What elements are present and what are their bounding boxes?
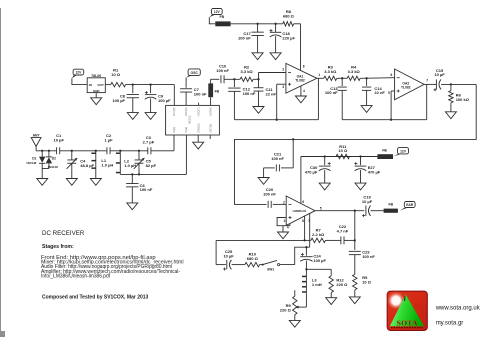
wire R8 to OA1 pin 8 bbox=[294, 24, 301, 70]
svg-text:78L06: 78L06 bbox=[91, 74, 101, 78]
wire diode return bbox=[42, 169, 49, 179]
capacitor C22 bbox=[326, 224, 355, 244]
svg-text:IN: IN bbox=[89, 83, 92, 87]
svg-text:3: 3 bbox=[284, 219, 286, 223]
wire LM386 pin3/pin4 ground loop bbox=[277, 218, 290, 233]
ground (C14) bbox=[361, 106, 372, 113]
svg-text:100 kΩ: 100 kΩ bbox=[456, 97, 470, 102]
ferrite bead FB (amp supply) bbox=[377, 149, 393, 159]
ground (C4) bbox=[66, 179, 77, 186]
capacitor C14 bbox=[362, 78, 385, 105]
ground (R9) bbox=[289, 320, 300, 327]
wire OA1 output bbox=[317, 77, 324, 79]
capacitor E27 bbox=[354, 157, 380, 184]
svg-text:TL082: TL082 bbox=[295, 78, 305, 82]
stage source links bbox=[41, 255, 184, 280]
svg-text:10 pF: 10 pF bbox=[53, 137, 64, 142]
svg-text:1N4148: 1N4148 bbox=[26, 161, 37, 165]
capacitor C18 bbox=[270, 24, 296, 53]
audio amplifier U3 LM386-N1 bbox=[283, 196, 322, 230]
wire gain network bbox=[216, 239, 305, 241]
resistor R7 bbox=[305, 228, 326, 243]
switch SW1 bbox=[260, 260, 280, 271]
capacitor C30 bbox=[305, 157, 331, 184]
svg-text:100 nF: 100 nF bbox=[194, 91, 207, 96]
svg-text:22 nF: 22 nF bbox=[266, 92, 277, 97]
svg-text:OUT(4): OUT(4) bbox=[208, 108, 212, 117]
svg-text:470 µF: 470 µF bbox=[368, 170, 381, 175]
SOTA logo bbox=[387, 291, 428, 331]
wire feedback rail stage 2 bbox=[342, 84, 427, 120]
wire OA2 output bbox=[424, 83, 436, 85]
capacitor C20 bbox=[263, 187, 276, 208]
wire R3 to R4 bbox=[337, 77, 347, 79]
wire OA2 pin 5 feedback bbox=[391, 91, 395, 120]
capacitor C19 bbox=[362, 195, 373, 217]
svg-text:82 pF: 82 pF bbox=[146, 163, 157, 168]
capacitor C13 bbox=[325, 78, 347, 119]
svg-text:4.7 nF: 4.7 nF bbox=[337, 229, 349, 234]
resistor R6 bbox=[449, 84, 470, 111]
svg-text:680 Ω: 680 Ω bbox=[247, 256, 259, 261]
svg-text:10 Ω: 10 Ω bbox=[111, 72, 121, 77]
title DC RECEIVER bbox=[42, 230, 85, 237]
svg-text:2: 2 bbox=[283, 200, 285, 204]
svg-text:220 Ω: 220 Ω bbox=[336, 282, 348, 287]
svg-text:SOTA: SOTA bbox=[397, 318, 418, 327]
capacitor C12 bbox=[228, 79, 256, 119]
svg-text:10 µF: 10 µF bbox=[434, 72, 445, 77]
svg-text:LM386-N1: LM386-N1 bbox=[293, 209, 307, 213]
wire feedback rail stage 1 bbox=[234, 78, 318, 121]
svg-text:FB: FB bbox=[215, 89, 220, 93]
resistor R3 bbox=[324, 64, 337, 80]
wire FB to C10 bbox=[211, 78, 220, 80]
svg-text:48.8 pF: 48.8 pF bbox=[80, 163, 94, 168]
svg-text:100 nF: 100 nF bbox=[362, 254, 375, 259]
ground (E27) bbox=[355, 183, 366, 190]
ground (R5) bbox=[349, 297, 360, 304]
svg-text:Stages from:: Stages from: bbox=[42, 244, 74, 250]
svg-text:OSC(7): OSC(7) bbox=[196, 107, 200, 116]
svg-text:12V: 12V bbox=[400, 149, 407, 153]
svg-text:1 mH: 1 mH bbox=[312, 282, 322, 287]
wire LM386 output bbox=[315, 210, 364, 212]
ground (C21) bbox=[258, 178, 269, 185]
ground (C9) bbox=[145, 113, 156, 120]
inductor L3 bbox=[298, 268, 322, 307]
wire C19 to FB bbox=[371, 210, 384, 212]
wire LM386 pin 8 bbox=[303, 216, 305, 242]
svg-text:VCC(8): VCC(8) bbox=[172, 108, 176, 117]
ferrite bead FB (output) bbox=[384, 203, 398, 213]
svg-text:100 nF: 100 nF bbox=[271, 156, 284, 161]
wire C15 to R6 node bbox=[441, 83, 476, 85]
svg-text:OUT(5): OUT(5) bbox=[208, 124, 212, 133]
ferrite bead FB (mixer output) bbox=[208, 79, 219, 105]
wire R4 to OA2 bbox=[360, 77, 394, 79]
svg-text:470 µF: 470 µF bbox=[305, 170, 318, 175]
ground (D1 D2) bbox=[37, 179, 48, 186]
svg-text:D1: D1 bbox=[32, 157, 36, 161]
svg-text:Info/_LM386/Unleash-lm386.pdf: Info/_LM386/Unleash-lm386.pdf bbox=[41, 274, 111, 280]
variable capacitor C5 bbox=[134, 151, 157, 175]
wire OA1 pin 3 feedback bbox=[277, 84, 286, 120]
svg-text:6: 6 bbox=[302, 200, 304, 204]
SOTA gr url bbox=[436, 320, 464, 326]
svg-text:680 Ω: 680 Ω bbox=[283, 14, 295, 19]
inductor L1 bbox=[91, 151, 113, 178]
power flag 12V (regulator input) bbox=[72, 69, 84, 78]
ground (LM386 input) bbox=[278, 232, 289, 239]
svg-text:3: 3 bbox=[282, 85, 284, 89]
capacitor C17 bbox=[238, 24, 264, 53]
diode D2 1N4148 bbox=[46, 151, 58, 169]
capacitor C25 bbox=[216, 240, 234, 270]
svg-text:220 µF: 220 µF bbox=[282, 36, 295, 41]
ground (OA1 pin 4) bbox=[295, 96, 306, 103]
mixer U2 NE612 box bbox=[166, 103, 220, 139]
capacitor C1 bbox=[53, 133, 64, 155]
svg-text:OSC(6): OSC(6) bbox=[184, 107, 188, 116]
svg-text:FB: FB bbox=[382, 149, 387, 153]
svg-text:8: 8 bbox=[302, 219, 304, 223]
power flag 12V (main supply) bbox=[209, 9, 222, 18]
capacitor C2 bbox=[104, 133, 113, 155]
svg-text:6: 6 bbox=[391, 73, 393, 77]
svg-text:FB: FB bbox=[389, 203, 394, 207]
wire SW1 return bbox=[280, 246, 310, 265]
wire 6V rail to mixer VCC bbox=[126, 83, 175, 105]
wire LM386 pin 7 bbox=[309, 213, 311, 247]
antenna ANT bbox=[31, 133, 41, 150]
svg-text:2.7 pF: 2.7 pF bbox=[143, 140, 155, 145]
ground (regulator) bbox=[91, 93, 102, 105]
svg-text:3.3 kΩ: 3.3 kΩ bbox=[324, 69, 337, 74]
wire amp supply rail bbox=[301, 155, 378, 157]
svg-text:IN(2): IN(2) bbox=[184, 127, 188, 133]
ground (C11) bbox=[253, 107, 264, 114]
wire C20 to LM386 bbox=[273, 203, 286, 205]
variable capacitor C4 bbox=[67, 151, 95, 179]
inductor L2 bbox=[116, 151, 136, 174]
ground (C6) bbox=[127, 203, 138, 210]
resistor R12 bbox=[329, 269, 348, 297]
wire 12V to ferrite bead bbox=[209, 17, 215, 24]
svg-text:D2: D2 bbox=[52, 157, 56, 161]
wire front-end main line bbox=[36, 135, 174, 152]
svg-text:100 nF: 100 nF bbox=[216, 68, 229, 73]
svg-text:4: 4 bbox=[287, 226, 289, 230]
svg-text:TL082: TL082 bbox=[401, 86, 411, 90]
svg-text:100 nF: 100 nF bbox=[140, 187, 153, 192]
SOTA url bbox=[435, 305, 481, 311]
svg-text:www.sota.org.uk: www.sota.org.uk bbox=[435, 305, 481, 311]
wire supply rail to R8 bbox=[231, 23, 283, 25]
svg-text:1: 1 bbox=[318, 73, 320, 77]
svg-text:1.0 µH: 1.0 µH bbox=[124, 163, 136, 168]
svg-text:7: 7 bbox=[426, 78, 428, 82]
resistor R8 bbox=[283, 9, 295, 26]
wire filter output to audio amp bbox=[235, 84, 477, 204]
svg-text:10 µF: 10 µF bbox=[223, 253, 234, 258]
wire 12V to regulator bbox=[72, 78, 87, 84]
power flag 12V (amp supply) bbox=[394, 148, 409, 157]
ground (mixer pin 3) bbox=[193, 135, 204, 149]
svg-text:10 µF: 10 µF bbox=[362, 199, 373, 204]
scan edge artifact bbox=[0, 8, 5, 337]
svg-text:IN(1): IN(1) bbox=[172, 127, 176, 133]
capacitor C8 bbox=[112, 85, 139, 113]
ground (C18) bbox=[270, 53, 281, 60]
svg-text:10 Ω: 10 Ω bbox=[362, 279, 372, 284]
svg-text:3.3 kΩ: 3.3 kΩ bbox=[348, 69, 361, 74]
svg-text:100 nF: 100 nF bbox=[263, 191, 276, 196]
svg-text:1 µF: 1 µF bbox=[104, 137, 113, 142]
svg-text:ANT: ANT bbox=[33, 133, 41, 137]
wire C10 to R2 bbox=[224, 78, 240, 80]
capacitor C3 bbox=[143, 135, 155, 154]
ground (C17) bbox=[252, 53, 263, 60]
wire tank bottom rail bbox=[120, 135, 186, 176]
wire LM386 pin 6 supply bbox=[300, 157, 302, 204]
svg-text:EAR: EAR bbox=[406, 203, 414, 207]
resistor R2 bbox=[240, 65, 253, 82]
ground (C8) bbox=[127, 113, 138, 120]
svg-text:DC RECEIVER: DC RECEIVER bbox=[42, 230, 85, 237]
capacitor C9 bbox=[145, 85, 171, 113]
svg-text:5: 5 bbox=[320, 207, 322, 211]
svg-text:3.3 kΩ: 3.3 kΩ bbox=[241, 69, 254, 74]
svg-text:OUT: OUT bbox=[97, 83, 104, 87]
capacitor C24 bbox=[300, 247, 326, 269]
ground (L1) bbox=[90, 179, 101, 186]
resistor R5 bbox=[353, 274, 372, 297]
wire R2 to OA1 node bbox=[253, 73, 286, 89]
svg-text:OSC: OSC bbox=[191, 71, 199, 75]
svg-text:100 µF: 100 µF bbox=[313, 258, 326, 263]
wire output feedback node bbox=[354, 211, 356, 250]
resistor R10 bbox=[232, 252, 260, 267]
resistor R11 bbox=[336, 144, 349, 159]
svg-text:my.sota.gr: my.sota.gr bbox=[436, 320, 464, 326]
ground (C30) bbox=[319, 183, 330, 190]
potentiometer R9 bbox=[280, 290, 299, 320]
credit line bbox=[42, 295, 149, 301]
ferrite bead FB (supply input) bbox=[215, 15, 230, 26]
svg-text:22 nF: 22 nF bbox=[374, 90, 385, 95]
svg-text:SW1: SW1 bbox=[267, 267, 274, 271]
wire OA1 pin 4 to ground bbox=[300, 86, 302, 96]
svg-text:2.2 kΩ: 2.2 kΩ bbox=[312, 232, 325, 237]
capacitor C7 bbox=[180, 78, 207, 106]
svg-text:4: 4 bbox=[303, 89, 305, 93]
svg-text:1N4148: 1N4148 bbox=[48, 165, 59, 169]
op-amp OA1 TL082 bbox=[282, 63, 320, 93]
svg-text:12V: 12V bbox=[214, 10, 221, 14]
ground (R6) bbox=[445, 112, 456, 119]
voltage regulator U1 78L06 bbox=[87, 74, 105, 93]
diode D1 1N4148 bbox=[26, 151, 45, 169]
capacitor C10 bbox=[216, 63, 229, 83]
wire C24 to R12 bbox=[306, 268, 331, 270]
svg-text:12V: 12V bbox=[75, 70, 82, 74]
capacitor C15 bbox=[434, 68, 446, 92]
capacitor C6 bbox=[126, 174, 153, 203]
capacitor C21 bbox=[264, 139, 294, 177]
svg-text:100 nF: 100 nF bbox=[238, 36, 251, 41]
svg-text:2: 2 bbox=[282, 68, 284, 72]
oscillator flag OSC bbox=[186, 69, 200, 78]
svg-text:GND(3): GND(3) bbox=[196, 124, 200, 133]
ground (R12) bbox=[326, 298, 337, 305]
svg-text:8: 8 bbox=[303, 64, 305, 68]
svg-text:100 µF: 100 µF bbox=[112, 98, 125, 103]
subtitle Stages from bbox=[42, 244, 74, 250]
output flag EAR bbox=[400, 202, 415, 211]
svg-text:10 Ω: 10 Ω bbox=[338, 148, 348, 153]
svg-text:100 µF: 100 µF bbox=[158, 98, 171, 103]
resistor R4 bbox=[347, 64, 360, 80]
svg-text:5: 5 bbox=[388, 91, 390, 95]
svg-text:Composed and Tested by SV1COX,: Composed and Tested by SV1COX, Mar 2013 bbox=[42, 295, 149, 301]
capacitor C11 bbox=[254, 87, 277, 106]
svg-text:1.0 µH: 1.0 µH bbox=[101, 162, 113, 167]
svg-text:GND: GND bbox=[93, 89, 101, 93]
op-amp OA2 TL082 bbox=[388, 69, 428, 100]
svg-text:FB: FB bbox=[220, 15, 225, 19]
svg-text:220 Ω: 220 Ω bbox=[280, 307, 292, 312]
svg-text:100 nF: 100 nF bbox=[243, 91, 256, 96]
svg-text:100 nF: 100 nF bbox=[325, 90, 338, 95]
svg-text:NE612: NE612 bbox=[188, 115, 192, 124]
resistor R1 bbox=[105, 68, 125, 87]
capacitor C23 bbox=[349, 250, 376, 275]
